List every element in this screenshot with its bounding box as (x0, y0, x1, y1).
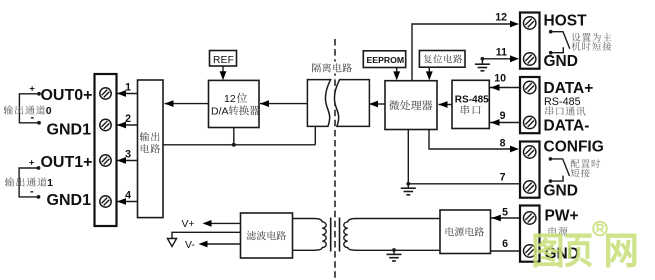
transformer primary winding (293, 219, 327, 251)
wire D/A bottom to latch line (233, 128, 235, 145)
svg-text:12: 12 (224, 93, 236, 105)
isolation barrier left shape (307, 80, 330, 127)
switch config (CONFIG-GND) (549, 157, 553, 161)
svg-text:V-: V- (185, 239, 195, 251)
label 配置时 (571, 159, 600, 168)
svg-text:OUT1+: OUT1+ (40, 154, 92, 171)
terminal block HOST/GND (520, 13, 540, 69)
svg-text:DATA+: DATA+ (544, 80, 594, 97)
screw terminal pin 9 (524, 116, 536, 128)
label 机时短接 (572, 42, 612, 51)
label 电源 (549, 227, 568, 236)
wire microprocessor ground to GND pin7 (407, 130, 409, 185)
RS-485 box U4 (452, 80, 489, 128)
isolation boundary dashed line (334, 39, 336, 280)
label 复位电路 (424, 54, 463, 63)
svg-text:-: - (31, 112, 35, 124)
screw terminal pin 8 (524, 146, 536, 158)
screw terminal pin 11 (524, 53, 536, 65)
wire microprocessor to CONFIG pin8 (429, 130, 516, 150)
watermark char 页 (565, 234, 593, 268)
label 电路 (141, 144, 160, 153)
svg-text:6: 6 (502, 238, 508, 250)
svg-text:4: 4 (125, 190, 131, 202)
analog ground triangle (167, 239, 176, 247)
power circuit box (440, 210, 491, 254)
screw terminal pin 6 (524, 245, 536, 257)
screw terminal pin 5 (524, 212, 536, 224)
switch set-as-host (HOST-GND) (549, 30, 553, 34)
label 微处理器 (389, 100, 432, 110)
output circuit box (138, 80, 164, 218)
label 输出通道 (4, 105, 46, 114)
svg-text:GND1: GND1 (47, 121, 92, 138)
terminal block DATA (520, 77, 540, 133)
wire ground to GND pin11 (482, 58, 516, 60)
wire D/A to output circuit (165, 103, 209, 105)
label 位 (237, 93, 247, 103)
channel 1 bracket (19, 168, 38, 197)
wire power circuit to PW+ pin5 (491, 217, 521, 219)
svg-text:V+: V+ (182, 218, 195, 230)
svg-text:D/A: D/A (211, 105, 229, 117)
svg-text:7: 7 (500, 171, 506, 183)
svg-text:OUT0+: OUT0+ (40, 87, 92, 104)
ground symbol secondary (393, 250, 395, 254)
svg-text:RS-485: RS-485 (455, 94, 489, 105)
svg-text:5: 5 (502, 206, 508, 218)
svg-text:2: 2 (125, 113, 131, 125)
svg-text:+: + (29, 158, 34, 168)
wire transformer secondary bottom to power circuit (355, 249, 440, 251)
wire isolation to microprocessor (369, 103, 385, 105)
svg-text:0: 0 (46, 105, 52, 117)
svg-text:1: 1 (125, 82, 131, 94)
svg-text:3: 3 (125, 149, 131, 161)
svg-text:GND1: GND1 (47, 192, 92, 209)
wire RS-485 to microprocessor (439, 104, 453, 106)
isolation barrier right shape (334, 80, 369, 127)
terminal block CONFIG (520, 142, 540, 198)
screw terminal pin 7 (524, 181, 536, 193)
svg-text:8: 8 (500, 138, 506, 150)
svg-text:12: 12 (495, 12, 507, 24)
svg-text:REF: REF (213, 55, 234, 66)
watermark char 网 (606, 234, 637, 268)
ground symbol pin11 (481, 60, 483, 64)
label 滤波电路 (247, 231, 286, 240)
label 输出 (140, 132, 160, 141)
label 输出通道 (5, 177, 47, 186)
wire pin2 (117, 124, 138, 126)
svg-text:-: - (30, 186, 34, 198)
wire filter to analog ground (172, 232, 241, 238)
REF box (210, 51, 237, 67)
svg-text:11: 11 (496, 47, 507, 59)
label 串口 (461, 105, 481, 115)
watermark registered trademark symbol (593, 222, 607, 236)
wire transformer secondary top to power circuit (355, 218, 440, 220)
wire microprocessor to HOST pin12 (412, 24, 516, 81)
channel 0 bracket (19, 94, 39, 123)
svg-text:GND: GND (544, 53, 578, 70)
svg-text:DATA-: DATA- (544, 117, 590, 134)
microprocessor box U3 (385, 81, 437, 130)
label 电源电路 (446, 227, 484, 236)
svg-text:1: 1 (47, 177, 53, 189)
filter circuit box (241, 213, 293, 258)
terminal block PW (520, 206, 540, 262)
svg-text:HOST: HOST (544, 12, 588, 29)
screw terminal pin 12 (524, 17, 536, 29)
wire reset circuit to microprocessor (428, 67, 430, 77)
screw terminal pin 2 (100, 119, 111, 130)
ground symbol pin7 (407, 184, 409, 188)
label 串口通讯 (545, 106, 585, 115)
EEPROM box (363, 51, 405, 68)
wire RS-485 to DATA- pin9 (489, 122, 520, 124)
terminal block left J1 (95, 74, 117, 226)
wire pin4 (117, 201, 138, 203)
svg-text:PW+: PW+ (545, 208, 579, 225)
svg-text:RS-485: RS-485 (544, 96, 581, 108)
wire RS-485 to DATA+ pin10 (489, 87, 520, 89)
svg-text:9: 9 (500, 110, 506, 122)
wire filter to V- (202, 243, 241, 245)
svg-text:GND: GND (544, 183, 578, 200)
svg-text:+: + (30, 84, 35, 94)
wire EEPROM to microprocessor (396, 68, 398, 78)
wire latch line output circuit to isolation (163, 144, 315, 146)
wire REF to D/A (222, 66, 224, 78)
watermark char 图 (534, 234, 563, 268)
D/A converter box U2 (209, 80, 260, 127)
wire isolation to D/A (260, 103, 308, 105)
reset circuit box (419, 51, 465, 68)
label 短接 (571, 169, 590, 178)
label 隔离电路 (312, 63, 352, 72)
screw terminal pin 4 (100, 196, 111, 207)
label 设置为主 (572, 33, 612, 42)
wire power circuit to GND pin6 (491, 250, 521, 252)
label 转换器 (229, 105, 260, 115)
screw terminal pin 3 (100, 155, 111, 166)
wire pin3 (117, 160, 138, 162)
transformer secondary winding (344, 219, 356, 251)
svg-text:CONFIG: CONFIG (544, 138, 604, 155)
screw terminal pin 10 (524, 81, 536, 93)
wire pin1 to output circuit (117, 93, 138, 95)
wire filter to V+ (205, 222, 241, 224)
svg-text:EEPROM: EEPROM (367, 55, 405, 65)
transformer core (330, 218, 332, 252)
svg-text:10: 10 (494, 72, 506, 84)
screw terminal pin 1 (100, 88, 111, 99)
